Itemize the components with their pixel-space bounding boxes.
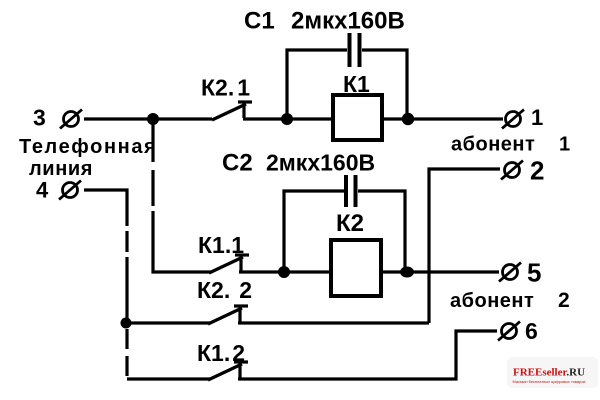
svg-text:К2: К2 <box>336 210 364 237</box>
svg-text:1: 1 <box>531 105 543 130</box>
svg-text:5: 5 <box>527 258 541 288</box>
svg-text:2: 2 <box>558 289 570 312</box>
svg-text:абонент: абонент <box>451 134 535 156</box>
svg-text:абонент: абонент <box>450 290 534 312</box>
svg-text:3: 3 <box>33 105 46 131</box>
svg-text:1: 1 <box>559 134 570 156</box>
svg-text:К2.2: К2.2 <box>197 277 252 303</box>
svg-text:К1: К1 <box>343 71 370 97</box>
svg-text:2мкх160В: 2мкх160В <box>266 150 375 176</box>
svg-text:4: 4 <box>36 178 49 203</box>
svg-text:Магазин бесплатных цифровых то: Магазин бесплатных цифровых товаров <box>513 379 586 384</box>
svg-text:2мкх160В: 2мкх160В <box>291 8 405 35</box>
svg-text:С1: С1 <box>244 8 275 35</box>
svg-text:FREEseller.RU: FREEseller.RU <box>513 367 585 379</box>
svg-text:Телефонная: Телефонная <box>19 136 157 158</box>
svg-text:6: 6 <box>525 318 538 344</box>
svg-text:К1.2: К1.2 <box>197 340 245 366</box>
svg-text:К2.1: К2.1 <box>201 75 250 101</box>
svg-text:2: 2 <box>530 156 544 186</box>
svg-text:К1.1: К1.1 <box>198 232 244 258</box>
svg-text:С2: С2 <box>222 150 253 177</box>
